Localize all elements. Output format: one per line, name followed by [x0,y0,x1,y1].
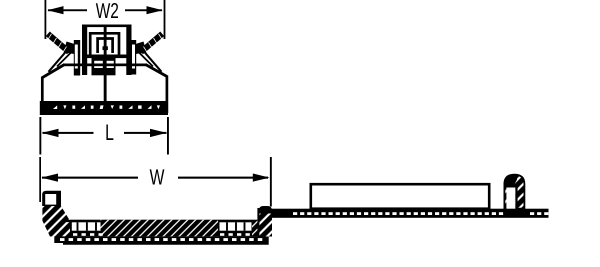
dimension L line right segment [124,132,167,134]
left side tab slot [75,45,78,69]
channel top edge line [63,220,259,222]
right side tab [130,40,136,75]
dimension label L [106,125,113,140]
hook clip solid cap [504,175,517,188]
left wing lower line [57,51,73,67]
dimension W left arrowhead [41,174,58,182]
channel right lip solid top [259,206,272,222]
channel band left windows section [70,220,101,237]
saddle right slant [146,65,168,77]
base strip speckles [53,105,160,109]
right wing cross line [138,44,162,72]
right wing lower line [137,51,153,67]
left wing arm (hatched rod) [47,34,75,54]
left end post inner [45,194,56,205]
dimension W line left segment [42,177,138,179]
channel right lip hatched lower [259,214,272,237]
channel bottom white dash row [60,238,262,241]
clamp outer housing top edge [82,25,132,28]
bottom box block [92,58,116,75]
center bolt line [104,25,107,102]
clamp outer housing left wall [82,25,87,76]
left side tab [74,40,80,76]
right side tab slot [132,45,135,69]
dimension W line right segment [178,177,268,179]
top rectangle [311,184,489,209]
left end hatched wedge [42,204,71,237]
channel band right windows section [218,220,252,237]
dimension W2 left extension line [45,0,47,39]
rail bar [271,209,548,218]
saddle top edge [63,64,147,67]
bottom box right window [105,61,114,68]
dimension W2 right extension line [164,0,166,39]
right wing arm (hatched rod) [136,34,164,54]
hook clip hatched body [504,175,524,209]
clamp jaw horizontal band [82,55,132,59]
saddle right side [166,76,169,114]
base strip [40,101,168,115]
dimension W left extension line [39,157,41,202]
channel bottom black region [50,236,269,244]
channel dash row under left windows [73,233,250,236]
saddle left slant [43,65,65,78]
rail bar white dash row [293,212,548,215]
left wing cross line [49,44,73,72]
dimension W2 left arrowhead [47,6,63,14]
dimension L left arrowhead [42,129,59,137]
saddle left side [41,77,44,102]
channel band right hatch section [252,220,271,237]
dimension W right extension line [270,157,272,207]
channel band middle hatch section [101,220,219,237]
dimension W right arrowhead [253,174,270,182]
innermost box [98,39,113,54]
dimension W2 line left segment [48,9,87,11]
inner box [90,33,119,57]
dimension L left extension line [39,117,41,155]
dimension label W [150,169,165,184]
dimension L right extension line [167,117,169,155]
bottom box left window [94,61,103,68]
hook clip inner slot [506,188,515,209]
dimension W2 line right segment [125,9,162,11]
hook clip slot right edge [515,185,517,209]
dimension L right arrowhead [150,129,167,137]
dimension W2 right arrowhead [147,6,163,14]
center bolt dot [103,46,108,50]
channel right lip left edge [257,208,259,237]
clamp outer housing right wall [126,25,131,76]
dimension L line left segment [43,132,94,134]
left end post outline [42,191,61,206]
dimension label W2 [96,3,118,18]
